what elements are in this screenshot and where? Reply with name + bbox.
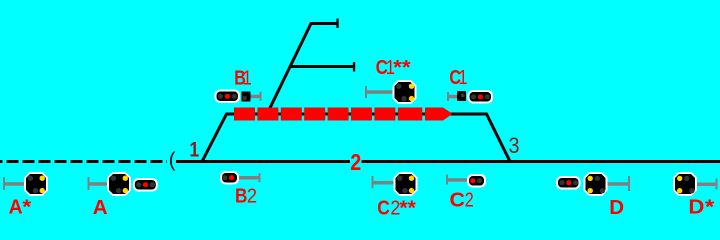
label B2 <box>235 185 257 208</box>
label C1** <box>376 56 411 79</box>
label A* <box>9 196 32 219</box>
svg-text:2: 2 <box>465 188 474 211</box>
signal A* (exit signal, left end) <box>3 172 48 196</box>
label D* <box>688 195 714 218</box>
signal A (exit signal with shunt head) <box>88 172 158 196</box>
svg-text:C: C <box>450 188 466 211</box>
wire: loop track with switch 1 and switch 3 diagonals <box>202 114 511 163</box>
signal D (entry signal right, with shunt head, yellow aspects) <box>556 172 630 196</box>
svg-text:A: A <box>9 196 23 219</box>
svg-text:2: 2 <box>247 185 257 208</box>
svg-text:3: 3 <box>509 133 520 158</box>
node label: switch 1 <box>189 139 199 162</box>
signal C1** (exit signal on loop, yellow aspects) <box>365 80 417 104</box>
signal C2 (shunt signal below main, red aspect) <box>446 174 486 188</box>
signal D* (entry signal far right, yellow aspects) <box>673 172 718 196</box>
svg-text:1: 1 <box>458 66 467 89</box>
signal C1 (signal on loop right, red aspect) <box>447 90 493 104</box>
signal C2** (exit signal below main, yellow aspects) <box>372 172 418 196</box>
wire: main track segment after label 2 <box>362 160 720 163</box>
label C1 <box>449 66 467 89</box>
svg-text:1: 1 <box>243 67 252 90</box>
svg-text:D: D <box>688 195 704 218</box>
svg-text:*: * <box>22 196 31 219</box>
svg-text:B: B <box>235 185 247 208</box>
node: middle stub track end marker <box>353 62 355 72</box>
train occupancy blocks on loop track <box>234 108 453 121</box>
svg-text:(: ( <box>169 150 176 172</box>
wire: middle stub track <box>289 65 353 68</box>
svg-text:*: * <box>705 195 714 218</box>
wire: dashed approach track (left) <box>0 160 167 163</box>
svg-text:1: 1 <box>189 139 199 162</box>
node: top stub track end marker <box>336 19 338 29</box>
svg-text:**: ** <box>393 56 411 79</box>
svg-text:A: A <box>93 196 108 219</box>
label A <box>93 196 108 219</box>
signal B1 (entry signal on loop, red aspect) <box>215 90 262 104</box>
node label: switch 3 <box>509 133 520 158</box>
svg-text:**: ** <box>399 197 416 220</box>
svg-text:C: C <box>377 197 390 220</box>
label B1 <box>234 67 252 90</box>
wire: siding diagonal to stub tracks <box>268 24 337 113</box>
node label: track 2 <box>350 149 361 175</box>
signal B2 (shunt signal below main track) <box>220 171 261 185</box>
label C2 <box>450 188 474 211</box>
svg-text:2: 2 <box>350 149 361 175</box>
svg-text:D: D <box>609 196 624 219</box>
node bracket ( at track entry <box>169 150 176 172</box>
label C2** <box>377 197 416 220</box>
label D <box>609 196 624 219</box>
wire: main track segment before label 2 <box>176 160 350 163</box>
